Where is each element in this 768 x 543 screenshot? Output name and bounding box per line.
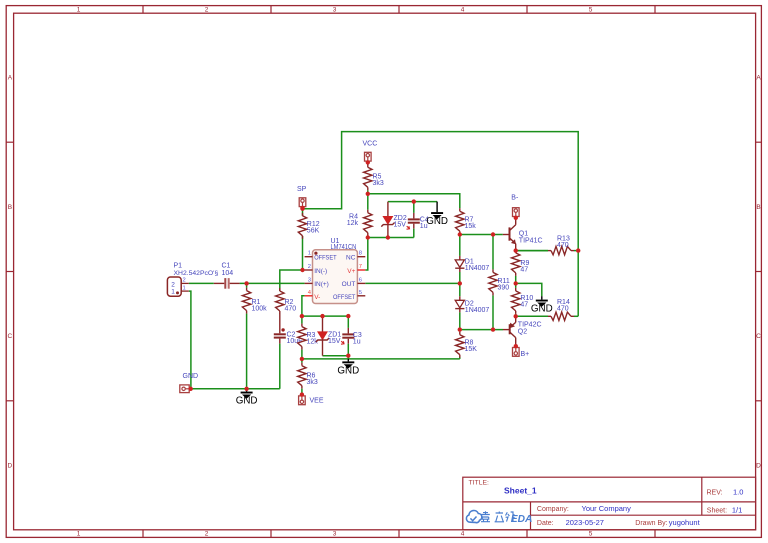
svg-text:4: 4 bbox=[461, 531, 465, 538]
svg-text:2: 2 bbox=[205, 531, 209, 538]
svg-text:C: C bbox=[8, 333, 13, 340]
svg-text:GND: GND bbox=[236, 396, 258, 407]
wire Q2 emitter node to R14 bbox=[516, 315, 548, 317]
transistor Q2 TIP42C bbox=[503, 316, 542, 344]
svg-text:Q2: Q2 bbox=[518, 328, 527, 335]
svg-text:D: D bbox=[8, 462, 13, 469]
junction D2 bottom node bbox=[458, 327, 462, 331]
net flag SP bbox=[297, 186, 307, 210]
svg-text:C: C bbox=[756, 333, 761, 340]
resistor R8 bbox=[456, 330, 478, 358]
long rail R3 R6 node to R8 bottom bbox=[302, 358, 460, 360]
svg-text:2: 2 bbox=[308, 264, 311, 270]
svg-text:TITLE:: TITLE: bbox=[469, 480, 490, 487]
svg-text:15k: 15k bbox=[465, 223, 477, 230]
resistor R14 bbox=[516, 299, 579, 321]
svg-text:Company:: Company: bbox=[537, 506, 569, 513]
svg-text:Date:: Date: bbox=[537, 520, 554, 527]
svg-text:VEE: VEE bbox=[310, 397, 324, 404]
svg-text:GND: GND bbox=[426, 216, 448, 227]
svg-text:5: 5 bbox=[359, 290, 362, 296]
svg-text:2: 2 bbox=[205, 7, 209, 14]
net flag B+ bbox=[513, 344, 530, 358]
resistor R1 bbox=[242, 283, 267, 388]
svg-text:IN(-): IN(-) bbox=[314, 268, 327, 275]
diode D1 bbox=[455, 235, 489, 284]
svg-text:1: 1 bbox=[171, 289, 175, 296]
svg-text:LM741CN: LM741CN bbox=[331, 244, 357, 251]
svg-text:3: 3 bbox=[333, 531, 337, 538]
svg-text:D: D bbox=[756, 462, 761, 469]
zener diode ZD2 bbox=[381, 202, 407, 238]
junction GND port bbox=[189, 387, 193, 391]
wire P1 pin1 down to ground rail bbox=[189, 291, 191, 389]
resistor R4 bbox=[347, 194, 372, 238]
wire R9 R10 node to ground bbox=[516, 283, 542, 296]
svg-text:470: 470 bbox=[557, 305, 569, 312]
resistor R13 bbox=[516, 235, 579, 255]
transistor Q1 TIP41C bbox=[503, 219, 543, 250]
svg-text:1/1: 1/1 bbox=[732, 506, 742, 515]
capacitor C2 bbox=[274, 314, 303, 347]
capacitor C1 bbox=[214, 263, 240, 289]
svg-text:Sheet_1: Sheet_1 bbox=[504, 485, 537, 495]
title block bbox=[463, 477, 756, 530]
resistor R7 bbox=[456, 208, 477, 234]
resistor R5 bbox=[364, 164, 384, 194]
svg-text:100k: 100k bbox=[252, 305, 268, 312]
svg-text:NC: NC bbox=[346, 255, 356, 262]
svg-text:Your Company: Your Company bbox=[582, 504, 632, 513]
svg-text:3k3: 3k3 bbox=[307, 379, 318, 386]
resistor R2 bbox=[276, 288, 297, 314]
svg-text:B: B bbox=[756, 204, 760, 211]
wire R2 top to IN- pin bbox=[280, 270, 305, 291]
wire SP node to top rail to right rail bbox=[303, 132, 579, 317]
junction ZD1 top bbox=[320, 314, 324, 318]
svg-text:15V: 15V bbox=[328, 338, 341, 345]
polarity mark C4 bbox=[407, 226, 410, 229]
svg-text:1: 1 bbox=[183, 285, 186, 291]
junction Q2 emitter node bbox=[514, 314, 518, 318]
capacitor C4 bbox=[408, 202, 429, 231]
junction R7 bottom bbox=[458, 232, 462, 236]
svg-text:V+: V+ bbox=[347, 268, 355, 275]
polarity mark C3 bbox=[341, 341, 344, 344]
wire V- pin to V- node rail bbox=[302, 296, 305, 316]
svg-text:EDA: EDA bbox=[511, 514, 533, 525]
resistor R10 bbox=[512, 283, 534, 316]
wire R11 leads bbox=[492, 235, 494, 270]
svg-text:REV:: REV: bbox=[707, 490, 723, 497]
wire C3 bottom down to rail bbox=[347, 356, 349, 359]
svg-text:5: 5 bbox=[589, 7, 593, 14]
junction Q1 emitter node bbox=[514, 248, 518, 252]
svg-text:C1: C1 bbox=[222, 263, 231, 270]
wire Q1 emitter node to R13 bbox=[516, 250, 548, 252]
junction R9 bottom node bbox=[514, 281, 518, 285]
svg-text:2: 2 bbox=[183, 277, 186, 283]
svg-text:TIP41C: TIP41C bbox=[519, 238, 543, 245]
junction C3 top bbox=[346, 314, 350, 318]
wire OUT pin to D1 D2 node bbox=[365, 282, 460, 284]
wire ZD2 C4 top rail bbox=[388, 201, 437, 203]
junction at R1 top bbox=[244, 281, 248, 285]
ground rail wire bottom left bbox=[189, 388, 280, 390]
junction R5 bottom node bbox=[366, 192, 370, 196]
svg-text:Q1: Q1 bbox=[519, 231, 528, 238]
svg-text:VCC: VCC bbox=[363, 140, 378, 147]
junction ZD2 bottom bbox=[386, 235, 390, 239]
svg-text:3k3: 3k3 bbox=[373, 180, 384, 187]
svg-text:470: 470 bbox=[285, 305, 297, 312]
svg-text:SP: SP bbox=[297, 186, 307, 193]
wire Q2 base rail bbox=[460, 329, 503, 331]
svg-text:1N4007: 1N4007 bbox=[465, 265, 490, 272]
zener diode ZD1 bbox=[316, 316, 341, 356]
svg-text:6: 6 bbox=[359, 277, 362, 283]
wire SP node down through R12 to IN- bbox=[302, 209, 304, 216]
svg-text:XH2.542PcO'§: XH2.542PcO'§ bbox=[174, 270, 219, 277]
op-amp U1 LM741CN bbox=[305, 238, 366, 303]
svg-text:7: 7 bbox=[359, 264, 362, 270]
svg-text:A: A bbox=[8, 75, 13, 82]
net flag VEE bbox=[299, 392, 324, 404]
svg-text:12k: 12k bbox=[347, 220, 359, 227]
junction R3 top bbox=[300, 314, 304, 318]
V- node rail to ZD1 and C3 bbox=[302, 315, 348, 317]
svg-text:470: 470 bbox=[557, 242, 569, 249]
resistor R12 bbox=[298, 213, 319, 239]
svg-text:3: 3 bbox=[333, 7, 337, 14]
svg-text:1N4007: 1N4007 bbox=[465, 307, 490, 314]
wire VCC to R5 bbox=[367, 162, 369, 165]
resistor R11 bbox=[489, 269, 510, 295]
ground under ZD2 C4 rail bbox=[426, 202, 448, 227]
wire C4 bottom corner bbox=[413, 231, 415, 238]
svg-text:OFFSET: OFFSET bbox=[314, 255, 336, 262]
wire ZD1 bottom to C3 bottom bbox=[323, 355, 349, 357]
connector P1 bbox=[167, 263, 218, 297]
capacitor C3 bbox=[342, 316, 362, 356]
svg-text:TIP42C: TIP42C bbox=[518, 321, 542, 328]
svg-text:A: A bbox=[756, 75, 761, 82]
svg-text:56K: 56K bbox=[307, 228, 320, 235]
junction R13 right on rail bbox=[576, 248, 580, 252]
junction C3 bottom bbox=[346, 354, 350, 358]
EasyEDA logo bbox=[466, 511, 532, 525]
ground under C3 bbox=[337, 359, 359, 376]
svg-text:47: 47 bbox=[520, 266, 528, 273]
svg-text:IN(+): IN(+) bbox=[314, 281, 329, 288]
svg-text:47: 47 bbox=[520, 302, 528, 309]
junction R1 bottom bbox=[244, 387, 248, 391]
svg-text:Drawn By:: Drawn By: bbox=[635, 520, 667, 527]
resistor R6 bbox=[298, 359, 318, 395]
svg-text:2: 2 bbox=[171, 282, 175, 289]
svg-text:390: 390 bbox=[498, 285, 510, 292]
svg-text:GND: GND bbox=[337, 365, 359, 376]
net flag B- bbox=[511, 194, 519, 220]
supply rail to R7 top bbox=[368, 194, 460, 208]
wire ZD2 C4 bottom rail bbox=[368, 237, 414, 239]
svg-text:B+: B+ bbox=[521, 351, 530, 358]
wire C2 bottom to ground rail bbox=[279, 347, 281, 389]
svg-text:V-: V- bbox=[314, 294, 320, 301]
junction R11 bottom bbox=[491, 327, 495, 331]
svg-text:5: 5 bbox=[589, 531, 593, 538]
wire R4 bottom node to V+ pin bbox=[365, 238, 368, 271]
svg-text:P1: P1 bbox=[174, 263, 183, 270]
svg-text:15K: 15K bbox=[465, 346, 478, 353]
diode D2 bbox=[455, 283, 489, 329]
junction SP node bbox=[300, 207, 304, 211]
resistor R3 bbox=[298, 316, 319, 359]
svg-text:B: B bbox=[8, 204, 12, 211]
svg-text:4: 4 bbox=[308, 290, 312, 296]
ground under left rail bbox=[236, 389, 258, 407]
svg-text:1.0: 1.0 bbox=[733, 488, 743, 497]
net flag GND port left bbox=[180, 373, 198, 393]
junction R4 bottom node bbox=[366, 235, 370, 239]
svg-text:1: 1 bbox=[308, 251, 311, 257]
resistor R9 bbox=[512, 250, 530, 284]
ground under R9 R10 node bbox=[531, 296, 553, 314]
svg-text:3: 3 bbox=[308, 277, 311, 283]
svg-text:GND: GND bbox=[531, 304, 553, 315]
svg-text:104: 104 bbox=[222, 270, 234, 277]
svg-text:OUT: OUT bbox=[342, 281, 356, 288]
net flag VCC bbox=[363, 140, 378, 164]
wire P1 pin2 to C1 to IN+ pin bbox=[189, 282, 214, 284]
svg-text:GND: GND bbox=[183, 373, 199, 380]
svg-text:Sheet:: Sheet: bbox=[707, 507, 727, 514]
svg-text:2023-05-27: 2023-05-27 bbox=[566, 518, 604, 527]
svg-text:1u: 1u bbox=[353, 339, 361, 346]
svg-text:4: 4 bbox=[461, 7, 465, 14]
wire Q1 base rail bbox=[460, 234, 503, 236]
junction R6 top bbox=[300, 357, 304, 361]
svg-text:1: 1 bbox=[77, 7, 81, 14]
svg-text:15V: 15V bbox=[394, 222, 407, 229]
svg-text:B-: B- bbox=[511, 194, 519, 201]
junction C4 top bbox=[412, 199, 416, 203]
svg-text:1: 1 bbox=[77, 531, 81, 538]
junction D1 D2 node bbox=[458, 281, 462, 285]
junction R11 top bbox=[491, 232, 495, 236]
svg-text:OFFSET: OFFSET bbox=[333, 294, 355, 301]
junction R12 bottom at IN- bbox=[300, 268, 304, 272]
svg-text:8: 8 bbox=[359, 251, 362, 257]
svg-text:yugohunt: yugohunt bbox=[669, 518, 701, 527]
